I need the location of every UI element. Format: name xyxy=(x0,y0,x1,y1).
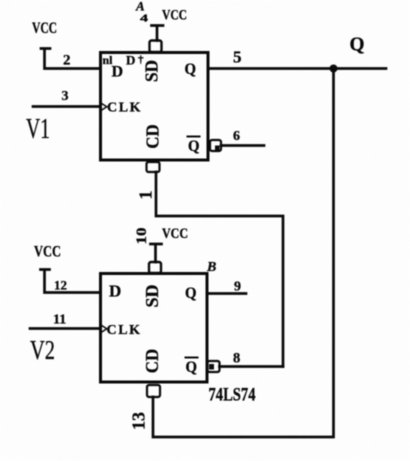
flip-flop U1A box (top 74LS74 D flip-flop) xyxy=(101,53,209,161)
flip-flop U2B box (bottom 74LS74 D flip-flop) xyxy=(101,274,208,383)
U1A label 1D xyxy=(103,53,145,81)
wire: U1A Q output (pin 5) to node Q xyxy=(208,67,386,70)
wire: V1 clock input to U1A CLK (pin 3) xyxy=(33,105,100,108)
U2B SD preset terminal (pin 10 terminal) xyxy=(149,262,161,273)
wire: VCC bracket to U1A 1D input (pin 2) xyxy=(41,49,100,69)
wire: U1A CD (pin 1) to U2B Qbar (pin 8) xyxy=(156,172,283,367)
U1A Qbar output terminal (pin 6) xyxy=(210,140,221,151)
node Q junction dot xyxy=(330,65,338,73)
wire: V2 clock input to U2B CLK (pin 11) xyxy=(30,327,100,330)
U1A label CLK with edge triangle xyxy=(101,103,107,111)
U2B label CLK with edge triangle xyxy=(101,325,107,333)
wire: U2B Qbar (pin 8) to vertical from U1A pin 1 xyxy=(220,365,284,368)
wire: VCC bracket to U2B 1D input (pin 12) xyxy=(41,270,101,293)
wire: U2B Q output (pin 9) stub xyxy=(207,292,246,295)
U2B Qbar output terminal (pin 8) xyxy=(208,361,220,372)
wire: U1A Qbar (pin 6) stub xyxy=(221,144,264,147)
U2B CD terminal (pin 13) xyxy=(147,385,160,397)
U1A SD preset terminal (pin 4) xyxy=(150,41,162,53)
wire: VCC tee to U2B SD terminal xyxy=(151,244,162,262)
wire: feedback from node Q down and left to U2B CD (pin 13) xyxy=(153,69,334,438)
U1A CD terminal (pin 1) xyxy=(147,162,160,172)
wire: VCC tee to U1A SD terminal xyxy=(152,26,164,41)
